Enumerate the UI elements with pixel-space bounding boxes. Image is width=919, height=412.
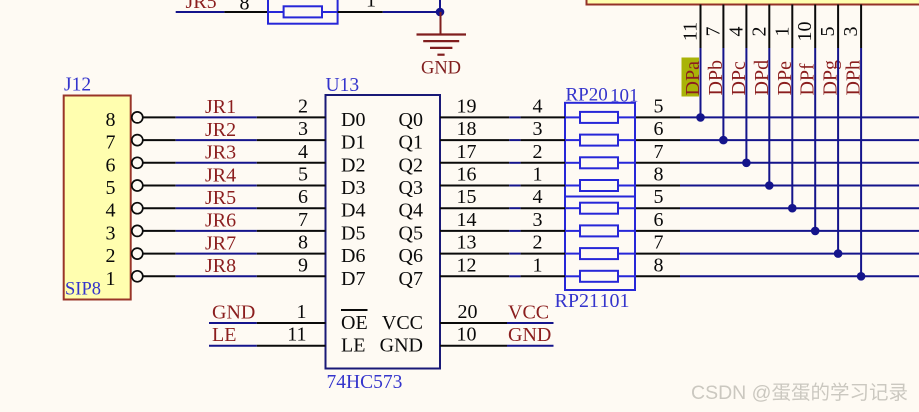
svg-text:2: 2 [533, 141, 543, 163]
resistor element RP21.2 [580, 248, 618, 259]
pin 20 stub of U13 (VCC) [440, 322, 507, 324]
svg-text:10: 10 [794, 22, 816, 42]
pin 8 stub of RP21 right [635, 275, 680, 277]
svg-text:5: 5 [817, 27, 839, 37]
svg-text:VCC: VCC [508, 302, 549, 324]
resistor element RP21.3 [580, 225, 618, 236]
svg-text:9: 9 [298, 254, 308, 276]
wire DPh vertical [860, 48, 862, 276]
svg-text:5: 5 [298, 164, 308, 186]
svg-text:1: 1 [106, 268, 116, 290]
svg-text:JR2: JR2 [205, 119, 236, 141]
wire LE [209, 345, 257, 347]
wire row 4 to right edge [680, 185, 919, 187]
wire row 6 to right edge [680, 230, 919, 232]
svg-text:7: 7 [654, 141, 664, 163]
wire inside RP20 right of resistor [618, 185, 635, 187]
resistor element RP20.4 [580, 112, 618, 123]
svg-text:JR3: JR3 [205, 142, 236, 164]
resistor pack RP21 body [565, 197, 635, 291]
wire JR5 [176, 207, 257, 209]
svg-text:JR5: JR5 [186, 0, 217, 13]
svg-text:8: 8 [654, 254, 664, 276]
pin 4 stub of RP left [521, 116, 565, 118]
svg-text:5: 5 [106, 177, 116, 199]
pin 7 stub of J12 [143, 139, 176, 141]
svg-text:D3: D3 [341, 177, 365, 199]
svg-text:13: 13 [457, 232, 477, 254]
pin 4 stub of U13 left [257, 162, 326, 164]
wire inside RP21 right of resistor [618, 230, 635, 232]
wire row 3 to right edge [680, 162, 919, 164]
resistor pack RP19 body (partial, cut at top) [268, 0, 338, 24]
pin name OE overline [341, 309, 368, 311]
junction DPd [765, 181, 774, 190]
pin 2 stub of RP left [521, 253, 565, 255]
wire inside RP21 left of resistor [565, 207, 580, 209]
wire DPg vertical [837, 48, 839, 254]
wire U13.13 to RP [509, 253, 520, 255]
svg-text:4: 4 [106, 200, 116, 222]
pin 7 circle of J12 [132, 135, 143, 146]
resistor element RP20.1 [580, 180, 618, 191]
junction DPf [811, 227, 820, 236]
svg-text:11: 11 [287, 324, 306, 346]
pin 8 stub of RP19 [224, 11, 268, 13]
svg-text:3: 3 [298, 118, 308, 140]
wire JR5 left segment [176, 11, 225, 13]
pin 1 stub of RP19 [338, 11, 383, 13]
pin 16 stub of U13 right [440, 185, 509, 187]
resistor element RP19d [284, 6, 322, 17]
pin 3 circle of J12 [132, 225, 143, 236]
pin 7 stub of RP21 right [635, 253, 680, 255]
svg-text:18: 18 [457, 118, 477, 140]
svg-text:J12: J12 [64, 74, 91, 95]
svg-text:8: 8 [654, 164, 664, 186]
pin 2 stub of J13 (vertical) [768, 5, 770, 49]
wire GND right [507, 345, 554, 347]
pin 5 stub of RP20 right [635, 116, 680, 118]
svg-text:Q3: Q3 [399, 177, 423, 199]
svg-text:3: 3 [533, 209, 543, 231]
pin 11 stub of U13 (LE) [257, 345, 326, 347]
wire row 7 to right edge [680, 253, 919, 255]
wire U13.16 to RP [509, 185, 520, 187]
pin 6 stub of RP20 right [635, 139, 680, 141]
svg-text:7: 7 [702, 27, 724, 37]
wire JR6 [176, 230, 257, 232]
svg-text:16: 16 [457, 164, 477, 186]
IC U13 body [326, 95, 441, 369]
pin 6 stub of U13 left [257, 207, 326, 209]
svg-text:RP21: RP21 [555, 290, 599, 312]
connector J12 body [64, 96, 131, 300]
svg-text:4: 4 [533, 95, 543, 117]
pin 14 stub of U13 right [440, 230, 509, 232]
wire U13.19 to RP [509, 116, 520, 118]
pin 4 stub of J12 [143, 207, 176, 209]
svg-text:JR7: JR7 [205, 232, 236, 254]
svg-text:Q1: Q1 [399, 132, 423, 154]
junction DPh [857, 272, 866, 281]
wire inside RP21 right of resistor [618, 275, 635, 277]
pin 6 stub of J12 [143, 162, 176, 164]
svg-text:JR8: JR8 [205, 255, 236, 277]
svg-text:19: 19 [457, 95, 477, 117]
pin 5 stub of J12 [143, 185, 176, 187]
svg-text:LE: LE [341, 335, 365, 357]
svg-text:Q6: Q6 [399, 245, 423, 267]
junction DPe [788, 204, 797, 213]
svg-text:74HC573: 74HC573 [327, 372, 403, 393]
pin 1 circle of J12 [132, 271, 143, 282]
pin 2 stub of RP left [521, 162, 565, 164]
wire DPf vertical [814, 48, 816, 231]
svg-text:JR5: JR5 [205, 187, 236, 209]
pin 15 stub of U13 right [440, 207, 509, 209]
wire row 2 to right edge [680, 139, 919, 141]
net label highlight on DPa [682, 58, 700, 97]
junction DPb [719, 136, 728, 145]
svg-text:GND: GND [421, 59, 461, 79]
svg-text:17: 17 [457, 141, 477, 163]
svg-text:Q5: Q5 [399, 222, 423, 244]
pin 10 stub of J13 (vertical) [814, 5, 816, 49]
pin 4 stub of RP left [521, 207, 565, 209]
pin 11 stub of J13 (vertical) [700, 5, 702, 49]
wire row 5 to right edge [680, 207, 919, 209]
svg-text:GND: GND [508, 324, 551, 346]
svg-text:2: 2 [106, 245, 116, 267]
svg-text:D4: D4 [341, 200, 365, 222]
pin 3 stub of U13 left [257, 139, 326, 141]
svg-text:U13: U13 [326, 75, 360, 96]
svg-text:4: 4 [725, 27, 747, 37]
pin 13 stub of U13 right [440, 253, 509, 255]
wire U13.15 to RP [509, 207, 520, 209]
ground bar 3 [430, 47, 452, 49]
svg-text:D0: D0 [341, 109, 365, 131]
wire inside RP20 left of resistor [565, 116, 580, 118]
svg-text:CSDN @蛋蛋的学习记录: CSDN @蛋蛋的学习记录 [691, 382, 908, 404]
svg-text:Q0: Q0 [399, 109, 423, 131]
wire going up from junction [439, 0, 441, 12]
wire DPd vertical [768, 48, 770, 186]
resistor element RP20.2 [580, 157, 618, 168]
svg-text:OE: OE [341, 312, 368, 334]
svg-text:2: 2 [298, 95, 308, 117]
wire inside RP20 right of resistor [618, 139, 635, 141]
pin 3 stub of RP left [521, 230, 565, 232]
pin 6 circle of J12 [132, 157, 143, 168]
junction DPa [696, 113, 705, 122]
wire GND to OE [209, 322, 257, 324]
svg-text:VCC: VCC [382, 312, 423, 334]
wire DPc vertical [745, 48, 747, 163]
svg-text:6: 6 [654, 118, 664, 140]
wire U13.12 to RP [509, 275, 520, 277]
pin 5 stub of RP21 right [635, 207, 680, 209]
pin 6 stub of RP21 right [635, 230, 680, 232]
pin 12 stub of U13 right [440, 275, 509, 277]
svg-text:D1: D1 [341, 132, 365, 154]
wire JR4 [176, 185, 257, 187]
svg-text:6: 6 [106, 154, 116, 176]
svg-text:GND: GND [380, 335, 423, 357]
pin 1 stub of U13 (OE) [257, 322, 326, 324]
pin 3 stub of RP left [521, 139, 565, 141]
svg-text:8: 8 [298, 232, 308, 254]
junction DPc [742, 159, 751, 168]
svg-text:1: 1 [366, 0, 376, 12]
pin 9 stub of U13 left [257, 275, 326, 277]
svg-text:GND: GND [212, 302, 255, 324]
wire inside RP20 right of resistor [618, 116, 635, 118]
svg-text:20: 20 [458, 301, 478, 323]
svg-text:5: 5 [654, 186, 664, 208]
svg-text:Q7: Q7 [399, 268, 423, 290]
resistor element RP20.3 [580, 135, 618, 146]
svg-text:8: 8 [240, 0, 250, 15]
wire VCC [507, 322, 554, 324]
wire inside RP21 left of resistor [565, 275, 580, 277]
svg-text:12: 12 [457, 254, 477, 276]
wire to GND junction [383, 11, 440, 13]
wire JR8 [176, 275, 257, 277]
svg-text:1: 1 [533, 254, 543, 276]
wire row 8 to right edge [680, 275, 919, 277]
pin 2 circle of J12 [132, 248, 143, 259]
pin 5 stub of U13 left [257, 185, 326, 187]
wire inside RP21 right of resistor [618, 207, 635, 209]
wire DPa vertical [700, 48, 702, 117]
wire DPb vertical [722, 48, 724, 140]
svg-text:LE: LE [212, 324, 236, 346]
ground bar 1 [417, 33, 467, 35]
wire inside RP20 left of resistor [565, 185, 580, 187]
resistor element RP21.1 [580, 271, 618, 282]
svg-text:D5: D5 [341, 222, 365, 244]
ground stem [440, 12, 442, 35]
svg-text:2: 2 [533, 232, 543, 254]
pin 19 stub of U13 right [440, 116, 509, 118]
junction DPg [834, 249, 843, 258]
svg-text:3: 3 [533, 118, 543, 140]
connector J13 (top right, partial) [587, 0, 919, 5]
junction node [436, 8, 445, 17]
pin 8 stub of J12 [143, 116, 176, 118]
ground bar 2 [423, 40, 459, 42]
pin 7 stub of RP20 right [635, 162, 680, 164]
pin 3 stub of J12 [143, 230, 176, 232]
svg-text:7: 7 [298, 209, 308, 231]
pin 5 stub of J13 (vertical) [837, 5, 839, 49]
svg-text:D6: D6 [341, 245, 365, 267]
pin 5 circle of J12 [132, 180, 143, 191]
pin 1 stub of J13 (vertical) [791, 5, 793, 49]
wire inside RP21 right of resistor [618, 253, 635, 255]
svg-text:3: 3 [840, 27, 862, 37]
wire JR3 [176, 162, 257, 164]
svg-text:Q2: Q2 [399, 154, 423, 176]
svg-text:101: 101 [600, 290, 630, 312]
svg-text:7: 7 [654, 232, 664, 254]
svg-text:6: 6 [298, 186, 308, 208]
wire JR1 [176, 116, 257, 118]
pin 7 stub of U13 left [257, 230, 326, 232]
resistor element RP21.4 [580, 203, 618, 214]
svg-text:JR4: JR4 [205, 164, 236, 186]
pin 8 stub of U13 left [257, 253, 326, 255]
svg-text:4: 4 [298, 141, 308, 163]
wire U13.14 to RP [509, 230, 520, 232]
wire U13.17 to RP [509, 162, 520, 164]
svg-text:15: 15 [457, 186, 477, 208]
wire JR2 [176, 139, 257, 141]
wire inside RP21 left of resistor [565, 230, 580, 232]
svg-text:4: 4 [533, 186, 543, 208]
svg-text:1: 1 [533, 164, 543, 186]
wire JR7 [176, 253, 257, 255]
svg-text:2: 2 [748, 27, 770, 37]
pin 18 stub of U13 right [440, 139, 509, 141]
wire inside RP19 left [268, 11, 284, 13]
pin 17 stub of U13 right [440, 162, 509, 164]
svg-text:D2: D2 [341, 154, 365, 176]
pin 1 stub of J12 [143, 275, 176, 277]
wire DPe vertical [791, 48, 793, 208]
wire inside RP20 right of resistor [618, 162, 635, 164]
wire inside RP21 left of resistor [565, 253, 580, 255]
wire inside RP20 left of resistor [565, 139, 580, 141]
svg-text:1: 1 [771, 27, 793, 37]
wire inside RP19 right [322, 11, 338, 13]
pin 4 stub of J13 (vertical) [745, 5, 747, 49]
pin 2 stub of U13 left [257, 116, 326, 118]
pin 8 circle of J12 [132, 112, 143, 123]
pin 1 stub of RP left [521, 275, 565, 277]
pin 10 stub of U13 (GND) [440, 345, 507, 347]
svg-text:5: 5 [654, 95, 664, 117]
svg-text:D7: D7 [341, 268, 365, 290]
svg-text:JR1: JR1 [205, 96, 236, 118]
svg-text:3: 3 [106, 222, 116, 244]
pin 1 stub of RP left [521, 185, 565, 187]
svg-text:10: 10 [457, 324, 477, 346]
pin 2 stub of J12 [143, 253, 176, 255]
svg-text:14: 14 [457, 209, 477, 231]
svg-text:8: 8 [106, 109, 116, 131]
svg-text:JR6: JR6 [205, 210, 236, 232]
svg-text:11: 11 [680, 22, 702, 41]
svg-text:6: 6 [654, 209, 664, 231]
pin 8 stub of RP20 right [635, 185, 680, 187]
wire U13.18 to RP [509, 139, 520, 141]
wire inside RP20 left of resistor [565, 162, 580, 164]
svg-text:7: 7 [106, 132, 116, 154]
pin 3 stub of J13 (vertical) [860, 5, 862, 49]
ground bar 4 [437, 54, 444, 56]
pin 7 stub of J13 (vertical) [722, 5, 724, 49]
svg-text:1: 1 [297, 301, 307, 323]
svg-text:Q4: Q4 [399, 200, 423, 222]
svg-text:SIP8: SIP8 [65, 280, 101, 300]
wire row 1 to right edge [680, 116, 919, 118]
pin 4 circle of J12 [132, 203, 143, 214]
resistor pack RP20 body [565, 103, 635, 197]
